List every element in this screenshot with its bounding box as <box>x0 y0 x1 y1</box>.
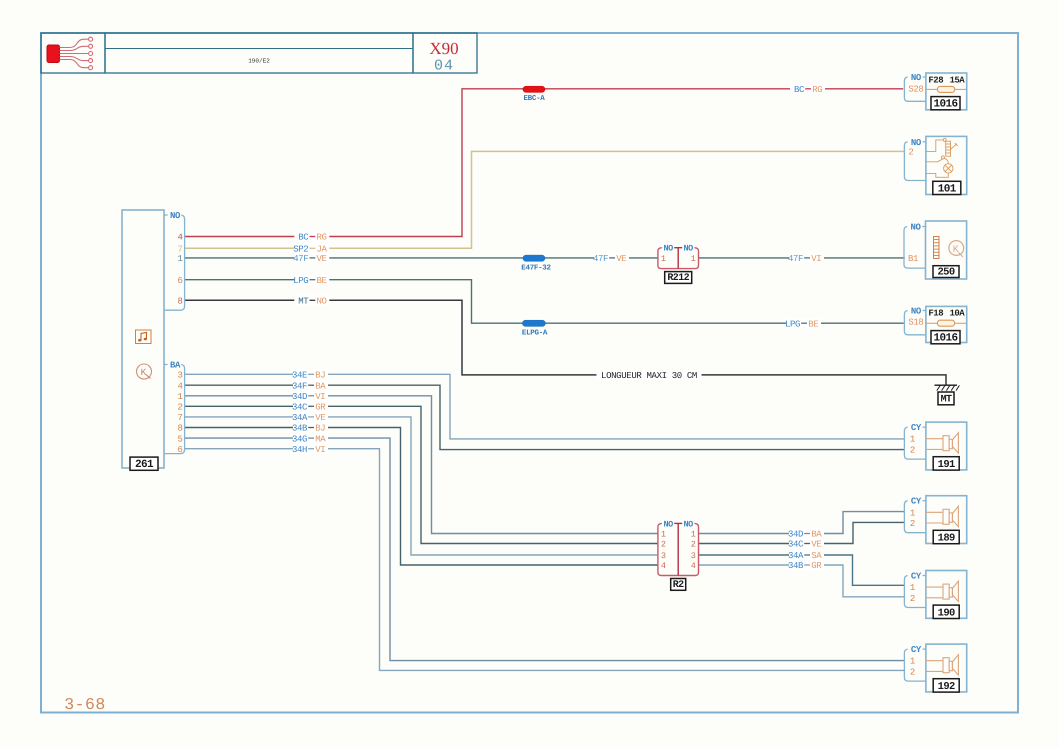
svg-text:2: 2 <box>910 519 915 529</box>
svg-text:1: 1 <box>177 254 182 264</box>
svg-text:BA: BA <box>811 530 822 540</box>
svg-text:S18: S18 <box>908 318 923 328</box>
svg-text:15A: 15A <box>949 75 965 85</box>
svg-text:2: 2 <box>910 594 915 604</box>
svg-text:192: 192 <box>938 681 955 693</box>
svg-text:GR: GR <box>811 561 822 571</box>
svg-text:34H: 34H <box>292 445 307 455</box>
svg-text:LPG: LPG <box>785 319 800 329</box>
svg-text:LPG: LPG <box>293 276 308 286</box>
svg-text:CY: CY <box>911 572 922 582</box>
svg-text:LONGUEUR MAXI 30 CM: LONGUEUR MAXI 30 CM <box>601 371 697 381</box>
svg-text:GR: GR <box>315 403 326 413</box>
svg-text:1: 1 <box>691 254 696 264</box>
svg-text:3: 3 <box>691 551 696 561</box>
svg-text:47F: 47F <box>293 254 308 264</box>
svg-text:10A: 10A <box>949 309 965 319</box>
svg-text:NO: NO <box>170 211 181 221</box>
svg-text:BC: BC <box>794 85 805 95</box>
svg-text:1016: 1016 <box>933 99 957 111</box>
svg-text:8: 8 <box>177 297 182 307</box>
svg-text:4: 4 <box>177 381 182 391</box>
svg-text:1: 1 <box>910 583 915 593</box>
svg-text:34E: 34E <box>292 371 307 381</box>
svg-text:F18: F18 <box>928 309 943 319</box>
svg-text:R2: R2 <box>673 580 684 591</box>
svg-text:34G: 34G <box>292 434 307 444</box>
svg-text:F28: F28 <box>928 75 943 85</box>
svg-text:1: 1 <box>910 508 915 518</box>
svg-text:ELPG-A: ELPG-A <box>522 329 548 338</box>
svg-text:190: 190 <box>938 607 955 619</box>
svg-text:X90: X90 <box>429 39 458 58</box>
svg-text:5: 5 <box>177 434 182 444</box>
svg-text:NO: NO <box>683 244 693 254</box>
svg-text:MT: MT <box>298 297 309 307</box>
svg-text:VI: VI <box>315 445 325 455</box>
svg-text:3: 3 <box>177 371 182 381</box>
svg-text:190/E2: 190/E2 <box>248 58 270 65</box>
svg-text:6: 6 <box>177 276 182 286</box>
svg-text:BE: BE <box>808 319 818 329</box>
svg-text:04: 04 <box>434 58 454 75</box>
svg-text:SA: SA <box>811 551 822 561</box>
svg-text:34B: 34B <box>788 561 804 571</box>
svg-text:NO: NO <box>663 519 673 529</box>
svg-text:S28: S28 <box>908 84 923 94</box>
svg-text:NO: NO <box>910 223 921 233</box>
svg-text:2: 2 <box>910 445 915 455</box>
svg-text:MA: MA <box>315 434 326 444</box>
svg-text:K: K <box>953 245 959 256</box>
svg-text:NO: NO <box>911 307 922 317</box>
svg-text:3: 3 <box>661 551 666 561</box>
svg-text:CY: CY <box>911 645 922 655</box>
svg-text:1016: 1016 <box>933 333 957 345</box>
svg-text:34C: 34C <box>292 403 308 413</box>
svg-text:NO: NO <box>663 244 673 254</box>
svg-text:VE: VE <box>616 254 626 264</box>
svg-text:7: 7 <box>177 413 182 423</box>
svg-text:1: 1 <box>661 530 666 540</box>
svg-text:2: 2 <box>177 403 182 413</box>
svg-text:4: 4 <box>691 561 696 571</box>
svg-text:VI: VI <box>811 254 821 264</box>
svg-text:VI: VI <box>315 392 325 402</box>
svg-text:34B: 34B <box>292 424 308 434</box>
svg-text:34C: 34C <box>788 540 804 550</box>
svg-text:BC: BC <box>298 233 309 243</box>
svg-text:8: 8 <box>177 424 182 434</box>
svg-text:NO: NO <box>911 73 922 83</box>
svg-text:4: 4 <box>661 561 666 571</box>
svg-text:CY: CY <box>911 497 922 507</box>
svg-text:E47F-32: E47F-32 <box>521 264 551 273</box>
svg-text:3-68: 3-68 <box>64 695 106 714</box>
svg-text:250: 250 <box>937 266 954 278</box>
svg-text:MT: MT <box>941 395 952 406</box>
svg-text:1: 1 <box>910 435 915 445</box>
svg-text:NO: NO <box>317 297 327 307</box>
svg-text:1: 1 <box>910 657 915 667</box>
svg-text:BJ: BJ <box>315 424 325 434</box>
svg-text:RG: RG <box>317 233 327 243</box>
svg-text:34D: 34D <box>788 530 803 540</box>
svg-text:K: K <box>141 367 147 378</box>
svg-text:2: 2 <box>661 540 666 550</box>
svg-text:RG: RG <box>812 85 822 95</box>
svg-text:R212: R212 <box>667 273 689 284</box>
svg-text:189: 189 <box>938 533 955 545</box>
svg-text:34F: 34F <box>292 381 307 391</box>
svg-text:1: 1 <box>661 254 666 264</box>
svg-text:101: 101 <box>938 183 957 195</box>
svg-text:191: 191 <box>938 459 955 471</box>
svg-text:B1: B1 <box>908 254 918 264</box>
svg-text:BA: BA <box>170 361 181 371</box>
svg-text:47F: 47F <box>593 254 608 264</box>
svg-text:VE: VE <box>315 413 325 423</box>
svg-text:261: 261 <box>135 459 154 471</box>
svg-text:2: 2 <box>908 148 913 158</box>
svg-text:34A: 34A <box>788 551 804 561</box>
svg-text:2: 2 <box>910 667 915 677</box>
svg-text:NO: NO <box>683 519 693 529</box>
svg-text:1: 1 <box>177 392 182 402</box>
svg-text:6: 6 <box>177 445 182 455</box>
svg-text:NO: NO <box>911 138 922 148</box>
svg-text:2: 2 <box>691 540 696 550</box>
svg-text:CY: CY <box>911 423 922 433</box>
svg-text:34D: 34D <box>292 392 307 402</box>
svg-text:BA: BA <box>315 381 326 391</box>
svg-text:VE: VE <box>317 254 327 264</box>
svg-text:7: 7 <box>177 245 182 255</box>
svg-text:4: 4 <box>177 233 182 243</box>
svg-text:VE: VE <box>811 540 821 550</box>
svg-text:EBC-A: EBC-A <box>523 94 545 103</box>
svg-text:47F: 47F <box>788 254 803 264</box>
svg-text:1: 1 <box>691 530 696 540</box>
svg-text:BJ: BJ <box>315 371 325 381</box>
svg-text:34A: 34A <box>292 413 308 423</box>
svg-text:BE: BE <box>317 276 327 286</box>
